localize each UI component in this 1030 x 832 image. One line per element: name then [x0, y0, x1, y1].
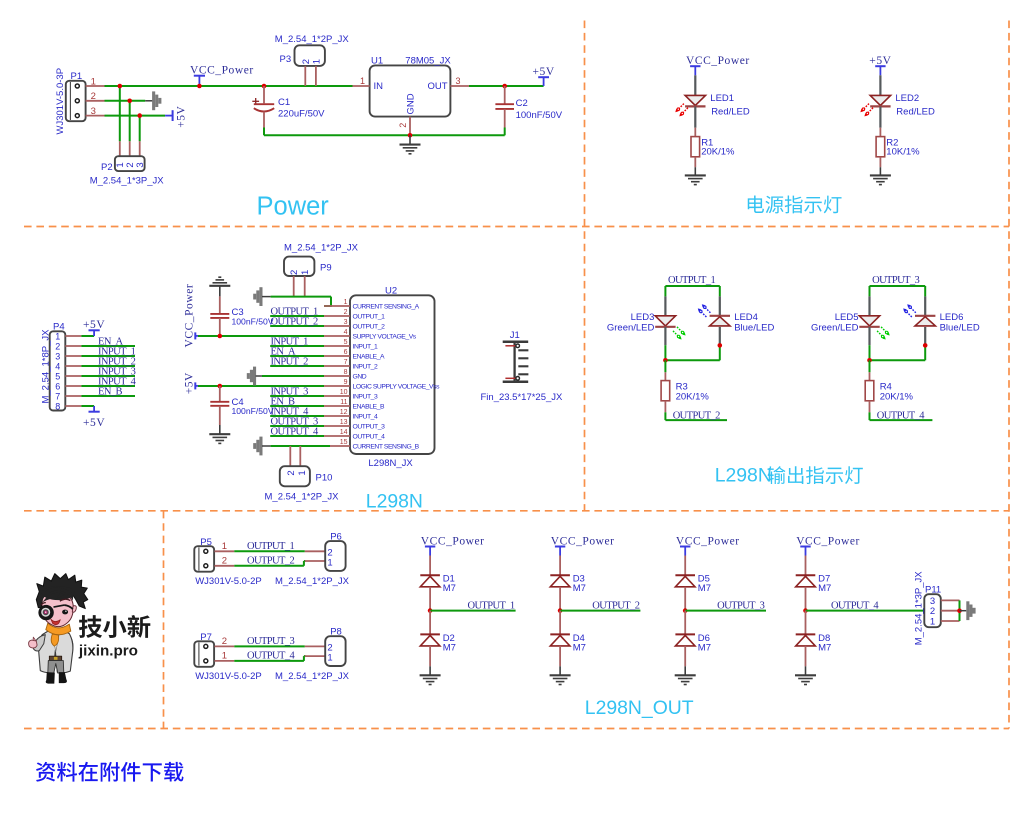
connector P5 WJ301V-5.0-2P	[194, 537, 261, 587]
svg-text:Fin_23.5*17*25_JX: Fin_23.5*17*25_JX	[481, 392, 564, 403]
svg-text:jixin.pro: jixin.pro	[78, 642, 138, 659]
net flag VCC_Power at LED1	[686, 55, 750, 75]
capacitor C3 100nF/50V	[210, 296, 274, 336]
svg-text:LED2: LED2	[895, 93, 919, 104]
svg-text:11: 11	[340, 399, 347, 406]
svg-text:P4: P4	[53, 321, 65, 332]
svg-text:OUTPUT_3: OUTPUT_3	[872, 275, 919, 286]
svg-text:M7: M7	[698, 643, 711, 654]
ground arrow at P1.2	[145, 91, 161, 110]
node OUTPUT_1	[668, 275, 715, 286]
logo text jixin.pro	[78, 642, 138, 659]
svg-text:2: 2	[222, 636, 227, 647]
wire OUTPUT_1	[234, 550, 304, 552]
svg-text:M_2.54_1*2P_JX: M_2.54_1*2P_JX	[275, 576, 350, 587]
svg-text:6: 6	[344, 349, 348, 356]
svg-text:2: 2	[344, 309, 348, 316]
svg-text:L298N_JX: L298N_JX	[368, 458, 413, 469]
diode D6 M7	[675, 611, 711, 667]
net flag VCC_Power at D3	[551, 536, 615, 556]
logo text 技小新	[79, 615, 150, 638]
svg-text:M_2.54_1*8P_JX: M_2.54_1*8P_JX	[41, 329, 52, 404]
svg-text:INPUT_4: INPUT_4	[353, 413, 378, 420]
svg-text:P6: P6	[330, 532, 342, 543]
node INPUT_4	[98, 376, 137, 387]
svg-text:P8: P8	[330, 627, 342, 638]
svg-text:3: 3	[455, 76, 460, 86]
svg-text:M7: M7	[573, 583, 586, 594]
svg-text:3: 3	[135, 162, 146, 167]
svg-text:10: 10	[340, 389, 348, 396]
wire VCC row to U2.4	[198, 334, 324, 339]
svg-text:VCC_Power: VCC_Power	[676, 536, 740, 548]
capacitor C2 100nF/50V	[495, 84, 562, 136]
svg-text:M_2.54_1*2P_JX: M_2.54_1*2P_JX	[275, 671, 350, 682]
svg-text:+5V: +5V	[869, 55, 891, 67]
svg-text:10K/1%: 10K/1%	[886, 147, 920, 158]
svg-text:2: 2	[398, 123, 408, 128]
wire U2 net OUTPUT_4	[270, 435, 324, 437]
svg-text:2: 2	[289, 270, 300, 275]
resistor R1 20K/1%	[691, 128, 735, 168]
svg-text:2: 2	[55, 341, 60, 351]
resistor R2 10K/1%	[876, 128, 920, 168]
svg-text:INPUT_1: INPUT_1	[353, 343, 378, 350]
wire U1.OUT to +5V	[469, 85, 544, 87]
wire to OUTPUT_2	[665, 412, 727, 420]
svg-text:Red/LED: Red/LED	[711, 107, 750, 118]
wire P4.1	[81, 335, 94, 337]
svg-text:20K/1%: 20K/1%	[880, 391, 914, 402]
svg-text:OUTPUT_1: OUTPUT_1	[668, 275, 715, 286]
svg-text:LED6: LED6	[940, 312, 964, 323]
+5V flag at P4.8	[83, 406, 105, 429]
node INPUT_3	[98, 366, 136, 377]
svg-text:LED3: LED3	[631, 312, 655, 323]
title L298N shuchu zhishideng	[715, 465, 863, 487]
section divider dashed lines	[24, 226, 1009, 228]
svg-text:IN: IN	[374, 81, 384, 92]
svg-text:OUTPUT_4: OUTPUT_4	[271, 426, 319, 437]
connector P8 M_2.54_1*2P_JX	[275, 627, 350, 683]
ground arrow at P9	[253, 287, 270, 306]
svg-text:L298N_OUT: L298N_OUT	[585, 697, 694, 719]
svg-text:+5V: +5V	[83, 319, 105, 331]
node OUTPUT_4	[247, 651, 295, 662]
svg-text:VCC_Power: VCC_Power	[686, 55, 750, 67]
wire P1.3	[105, 115, 166, 117]
title L298N_OUT	[585, 697, 694, 719]
svg-text:P10: P10	[316, 472, 333, 483]
svg-text:OUTPUT_2: OUTPUT_2	[592, 601, 639, 612]
svg-text:WJ301V-5.0-2P: WJ301V-5.0-2P	[195, 671, 262, 682]
wire node OUTPUT_4	[803, 608, 926, 613]
wire to OUTPUT_4	[870, 412, 933, 420]
svg-text:OUTPUT_4: OUTPUT_4	[247, 651, 295, 662]
svg-text:2: 2	[286, 470, 297, 475]
svg-text:M_2.54_1*2P_JX: M_2.54_1*2P_JX	[275, 34, 350, 45]
svg-text:CURRENT SENSING_B: CURRENT SENSING_B	[353, 443, 420, 450]
svg-text:1: 1	[55, 331, 60, 341]
svg-text:CURRENT SENSING_A: CURRENT SENSING_A	[353, 303, 420, 310]
connector P3 M_2.54_1*2P_JX	[275, 34, 350, 86]
svg-text:P2: P2	[101, 162, 113, 173]
+5V flag at U1 out	[532, 66, 554, 86]
svg-text:U1: U1	[371, 56, 383, 67]
svg-text:OUTPUT_1: OUTPUT_1	[247, 541, 294, 552]
svg-text:Power: Power	[257, 192, 330, 220]
LED LED3 Green/LED	[607, 296, 686, 345]
svg-text:M7: M7	[443, 643, 456, 654]
svg-text:OUTPUT_2: OUTPUT_2	[353, 323, 386, 330]
+5V flag at C4	[184, 372, 200, 394]
svg-text:GND: GND	[353, 373, 367, 380]
svg-text:WJ301V-5.0-2P: WJ301V-5.0-2P	[195, 576, 262, 587]
svg-text:7: 7	[344, 359, 348, 366]
earth ground under D2	[420, 666, 441, 684]
svg-text:C1: C1	[278, 97, 290, 108]
svg-text:78M05_JX: 78M05_JX	[405, 56, 451, 67]
svg-text:15: 15	[340, 439, 348, 446]
op-amp U1 78M05 regulator	[353, 56, 470, 136]
wire P4 net EN_A	[81, 345, 135, 347]
LED LED5 Green/LED	[811, 296, 890, 345]
wire node OUTPUT_1	[428, 608, 516, 613]
svg-text:ENABLE_A: ENABLE_A	[353, 353, 385, 360]
svg-text:+5V: +5V	[532, 66, 554, 78]
svg-text:VCC_Power: VCC_Power	[796, 536, 860, 548]
svg-text:1: 1	[297, 470, 308, 475]
svg-text:1: 1	[91, 76, 96, 87]
node OUTPUT_1	[467, 601, 514, 612]
node INPUT_1	[271, 336, 309, 347]
svg-text:P3: P3	[280, 54, 292, 65]
svg-text:Green/LED: Green/LED	[607, 323, 655, 334]
svg-text:Blue/LED: Blue/LED	[940, 323, 980, 334]
diode D5 M7	[675, 556, 711, 611]
svg-text:M7: M7	[818, 583, 831, 594]
connector P7 WJ301V-5.0-2P	[194, 632, 261, 682]
svg-text:LED5: LED5	[835, 312, 859, 323]
node INPUT_3	[271, 386, 309, 397]
title dianyuan zhishideng	[748, 196, 842, 214]
wire OUTPUT_4 with jog	[234, 656, 305, 661]
jixin.pro mascot logo	[29, 574, 88, 684]
wire P4 net INPUT_1	[81, 355, 135, 357]
svg-text:4: 4	[344, 329, 348, 336]
svg-text:M7: M7	[698, 583, 711, 594]
svg-text:1: 1	[360, 76, 365, 86]
svg-text:INPUT_2: INPUT_2	[271, 356, 309, 367]
node EN_B	[98, 386, 122, 397]
node OUTPUT_2	[247, 556, 294, 567]
svg-text:8: 8	[344, 369, 348, 376]
node EN_A	[271, 346, 296, 357]
svg-text:OUTPUT_1: OUTPUT_1	[467, 601, 514, 612]
junction dots P1 rows	[118, 84, 143, 118]
svg-text:J1: J1	[510, 330, 520, 341]
ground arrow at P11	[960, 601, 976, 620]
node INPUT_2	[98, 356, 136, 367]
wire node OUTPUT_3	[683, 608, 766, 613]
svg-text:M_2.54_1*3P_JX: M_2.54_1*3P_JX	[90, 176, 165, 187]
wire U2 net INPUT_1	[270, 345, 324, 347]
ground arrow at U2.8 GND	[247, 367, 262, 386]
svg-text:OUTPUT_3: OUTPUT_3	[247, 636, 294, 647]
LED LED4 Blue/LED	[698, 296, 775, 345]
svg-text:1: 1	[222, 651, 227, 662]
svg-text:M7: M7	[443, 583, 456, 594]
svg-text:20K/1%: 20K/1%	[701, 147, 735, 158]
wire P4 net INPUT_3	[81, 375, 135, 377]
diode D8 M7	[796, 611, 832, 667]
node OUTPUT_2	[271, 316, 318, 327]
wire U2 net OUTPUT_1	[270, 315, 324, 317]
earth ground under R2	[870, 167, 891, 184]
svg-text:13: 13	[340, 419, 348, 426]
wire OUTPUT_3	[234, 645, 304, 647]
svg-text:100nF/50V: 100nF/50V	[232, 317, 274, 327]
net flag VCC_Power	[190, 64, 254, 88]
node OUTPUT_4	[831, 601, 879, 612]
svg-text:P1: P1	[71, 71, 83, 82]
svg-text:OUTPUT_3: OUTPUT_3	[353, 423, 386, 430]
svg-text:M7: M7	[573, 643, 586, 654]
bottom ground rail	[264, 133, 505, 138]
diode D4 M7	[550, 611, 586, 667]
node OUTPUT_3	[271, 416, 318, 427]
svg-text:VCC_Power: VCC_Power	[190, 64, 254, 76]
node OUTPUT_2	[673, 410, 720, 421]
svg-text:SUPPLY VOLTAGE_Vs: SUPPLY VOLTAGE_Vs	[353, 333, 417, 340]
svg-text:OUTPUT_3: OUTPUT_3	[717, 601, 764, 612]
svg-text:9: 9	[344, 379, 348, 386]
svg-text:14: 14	[340, 429, 348, 436]
resistor R4 20K/1%	[865, 360, 913, 412]
svg-text:P9: P9	[320, 263, 332, 274]
svg-text:OUTPUT_4: OUTPUT_4	[831, 601, 879, 612]
svg-text:1: 1	[300, 270, 311, 275]
net flag VCC_Power at D5	[676, 536, 740, 556]
transistor U2 L298N_JX	[324, 286, 440, 469]
svg-text:Blue/LED: Blue/LED	[734, 323, 774, 334]
diode D7 M7	[796, 556, 832, 611]
node EN_B	[271, 396, 295, 407]
node INPUT_4	[271, 406, 310, 417]
connector P11 M_2.54_1*3P_JX	[914, 571, 960, 646]
svg-text:INPUT_3: INPUT_3	[353, 393, 378, 400]
svg-text:ENABLE_B: ENABLE_B	[353, 403, 385, 410]
svg-text:Green/LED: Green/LED	[811, 323, 859, 334]
net flag VCC_Power at D7	[796, 536, 860, 556]
connector P2 M_2.54_1*3P_JX	[90, 141, 165, 186]
svg-text:1: 1	[311, 59, 322, 64]
svg-text:LED4: LED4	[734, 312, 758, 323]
connector P4 M_2.54_1*8P_JX	[41, 321, 82, 411]
svg-text:GND: GND	[406, 93, 417, 114]
svg-text:P7: P7	[200, 632, 212, 643]
node OUTPUT_4	[271, 426, 319, 437]
title Power	[257, 192, 330, 220]
inverted earth ground above C3	[209, 277, 230, 296]
svg-text:LED1: LED1	[710, 93, 734, 104]
wire LED bottoms join	[663, 343, 722, 363]
svg-text:OUTPUT_2: OUTPUT_2	[673, 410, 720, 421]
node OUTPUT_1	[271, 306, 318, 317]
earth ground U1.GND	[400, 135, 421, 154]
wire P1.2	[105, 100, 146, 102]
ground arrow at U2.15	[253, 437, 270, 456]
svg-text:12: 12	[340, 409, 348, 416]
svg-text:2: 2	[91, 91, 96, 102]
wire P4 net INPUT_4	[81, 385, 135, 387]
resistor R3 20K/1%	[661, 360, 709, 412]
wire U2 net INPUT_2	[270, 365, 324, 367]
earth ground under D4	[550, 666, 571, 684]
svg-text:OUTPUT_4: OUTPUT_4	[353, 433, 386, 440]
svg-text:2: 2	[301, 59, 312, 64]
svg-text:6: 6	[55, 381, 60, 391]
capacitor C4 100nF/50V	[210, 386, 274, 425]
svg-text:1: 1	[327, 557, 332, 568]
earth ground under D8	[795, 666, 816, 684]
diode D3 M7	[550, 556, 586, 611]
wire U2 net OUTPUT_3	[270, 425, 324, 427]
svg-text:8: 8	[55, 401, 60, 411]
svg-text:U2: U2	[385, 286, 397, 297]
wire drops to P2	[120, 86, 140, 141]
wire U2 net EN_A	[270, 355, 324, 357]
+5V flag at P1.3	[165, 105, 187, 127]
LED LED1 Red/LED	[675, 75, 750, 127]
node EN_A	[98, 336, 123, 347]
wire LED bottoms join	[867, 343, 927, 363]
LED LED6 Blue/LED	[903, 296, 980, 345]
svg-text:100nF/50V: 100nF/50V	[516, 110, 563, 121]
svg-text:OUTPUT_4: OUTPUT_4	[877, 410, 925, 421]
svg-text:M_2.54_1*3P_JX: M_2.54_1*3P_JX	[914, 571, 925, 646]
node OUTPUT_3	[247, 636, 294, 647]
svg-text:OUTPUT_1: OUTPUT_1	[353, 313, 386, 320]
svg-text:OUTPUT_2: OUTPUT_2	[271, 316, 318, 327]
diode D2 M7	[420, 611, 456, 667]
svg-text:+5V: +5V	[184, 372, 196, 394]
svg-text:7: 7	[55, 391, 60, 401]
svg-text:1: 1	[222, 541, 227, 552]
net flag +5V at LED2	[869, 55, 891, 75]
svg-text:P11: P11	[925, 585, 941, 596]
svg-text:1: 1	[327, 652, 332, 663]
svg-text:5: 5	[55, 371, 60, 381]
svg-text:3: 3	[55, 351, 60, 361]
wire U2 net EN_B	[270, 405, 324, 407]
node INPUT_2	[271, 356, 309, 367]
svg-text:EN_B: EN_B	[98, 386, 122, 397]
earth ground under D6	[675, 666, 696, 684]
svg-text:M7: M7	[818, 643, 831, 654]
svg-text:Red/LED: Red/LED	[896, 107, 935, 118]
svg-text:L298N: L298N	[715, 465, 772, 487]
wire P1.1 to U1.IN	[105, 85, 353, 87]
title L298N	[366, 490, 423, 512]
svg-text:5: 5	[344, 339, 348, 346]
node OUTPUT_2	[592, 601, 639, 612]
earth ground under C4	[209, 425, 230, 443]
svg-text:+5V: +5V	[83, 417, 105, 429]
node OUTPUT_4	[877, 410, 925, 421]
wire P4.8	[81, 405, 94, 407]
wire P11 common	[957, 600, 962, 621]
node OUTPUT_3	[872, 275, 919, 286]
wire P9 row to U2.1	[271, 297, 332, 306]
svg-text:M_2.54_1*2P_JX: M_2.54_1*2P_JX	[265, 492, 340, 503]
svg-text:VCC_Power: VCC_Power	[184, 284, 196, 348]
svg-text:INPUT_2: INPUT_2	[353, 363, 378, 370]
svg-text:1: 1	[344, 299, 348, 306]
wire GND row	[262, 375, 324, 377]
wire U2 net INPUT_4	[270, 415, 324, 417]
earth ground under R1	[685, 167, 706, 184]
svg-text:WJ301V-5.0-3P: WJ301V-5.0-3P	[55, 68, 66, 135]
svg-text:P5: P5	[200, 537, 212, 548]
wire P4 net INPUT_2	[81, 365, 135, 367]
svg-text:100nF/50V: 100nF/50V	[232, 406, 274, 416]
svg-text:VCC_Power: VCC_Power	[551, 536, 615, 548]
net flag VCC_Power at C3	[184, 284, 200, 348]
connector P6 M_2.54_1*2P_JX	[275, 532, 350, 588]
svg-text:LOGIC SUPPLY VOLTAGE_Vss: LOGIC SUPPLY VOLTAGE_Vss	[353, 383, 441, 390]
svg-text:C2: C2	[516, 98, 528, 109]
svg-text:1: 1	[930, 616, 935, 627]
svg-text:OUT: OUT	[427, 81, 447, 92]
svg-text:220uF/50V: 220uF/50V	[278, 109, 325, 120]
connector P1 WJ301V-5.0-3P	[55, 68, 105, 135]
svg-text:VCC_Power: VCC_Power	[421, 536, 485, 548]
+5V flag at P4.1	[83, 319, 105, 336]
node INPUT_1	[98, 346, 136, 357]
wire U2 net OUTPUT_2	[270, 325, 324, 327]
svg-text:2: 2	[222, 556, 227, 567]
node OUTPUT_1	[247, 541, 294, 552]
diode D1 M7	[420, 556, 456, 611]
svg-text:+5V: +5V	[176, 105, 188, 127]
wire OUTPUT_1 rail	[665, 286, 719, 296]
net flag VCC_Power at D1	[421, 536, 485, 556]
wire P4 net EN_B	[81, 395, 135, 397]
svg-text:3: 3	[344, 319, 348, 326]
wire U2 net INPUT_3	[270, 395, 324, 397]
svg-text:OUTPUT_2: OUTPUT_2	[247, 556, 294, 567]
note ziliao zai fujian xiazai	[36, 762, 184, 782]
svg-text:M_2.54_1*2P_JX: M_2.54_1*2P_JX	[284, 243, 359, 254]
LED LED2 Red/LED	[860, 75, 935, 127]
svg-text:3: 3	[91, 106, 96, 117]
connector P10 M_2.54_1*2P_JX	[265, 446, 340, 503]
svg-text:20K/1%: 20K/1%	[676, 391, 710, 402]
wire row 15 with P10	[271, 445, 330, 447]
svg-text:4: 4	[55, 361, 60, 371]
heatsink J1 Fin_23.5*17*25_JX	[481, 330, 564, 403]
svg-text:L298N: L298N	[366, 490, 423, 512]
wire node OUTPUT_2	[558, 608, 641, 613]
wire +5V row to U2.9	[198, 384, 324, 389]
node OUTPUT_3	[717, 601, 764, 612]
capacitor C1 220uF/50V	[252, 84, 325, 136]
connector P9 M_2.54_1*2P_JX	[284, 243, 359, 297]
wire OUTPUT_2 with jog	[234, 561, 305, 566]
wire OUTPUT_3 rail	[870, 286, 926, 296]
